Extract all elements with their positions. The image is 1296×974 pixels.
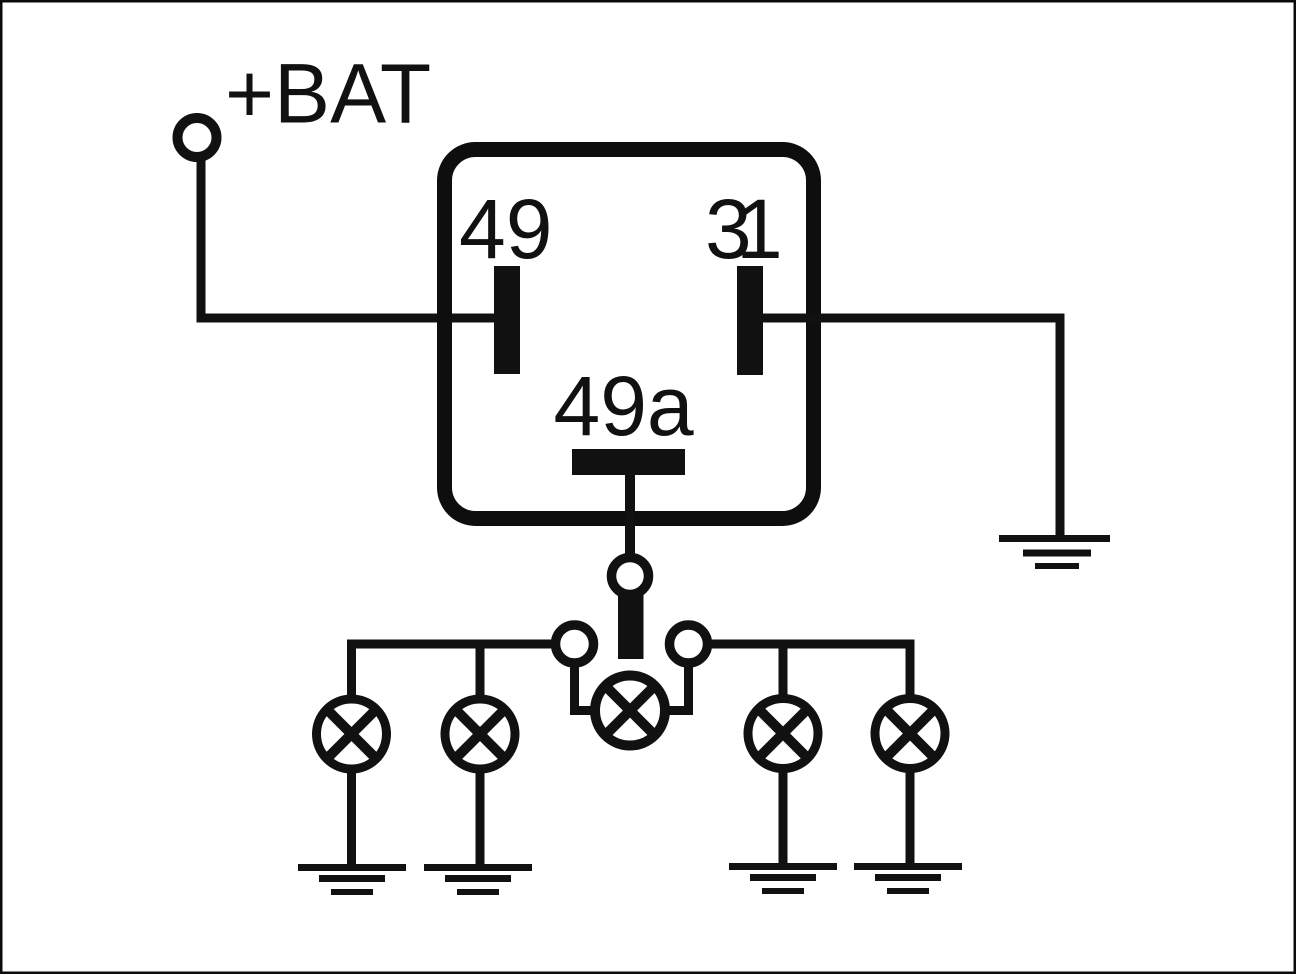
svg-text:+BAT: +BAT [225, 47, 431, 141]
lamp L5 center [595, 676, 665, 746]
contact node left [556, 625, 594, 663]
svg-text:49: 49 [459, 182, 552, 276]
ground G4 [854, 867, 962, 892]
wire lamp L2 drop [476, 644, 485, 700]
lamp L4 [875, 699, 945, 769]
wire lamp L1 to ground G1 [347, 769, 356, 867]
contact node right [670, 625, 708, 663]
ground G5 right [999, 539, 1110, 567]
wire pin 49a to switch contact [625, 473, 635, 556]
ground G2 [424, 868, 532, 893]
wire right bus to lamps L3 L4 [712, 644, 910, 698]
pin 31 [737, 266, 763, 375]
pin 49a [572, 449, 685, 475]
wire +BAT to pin 49 [201, 158, 502, 318]
lamp L1 [317, 699, 387, 769]
switch pivot contact [612, 558, 649, 595]
pin 49 [494, 266, 520, 374]
wire right contact to lamp L5 [666, 662, 689, 711]
ground G1 [298, 868, 406, 893]
wire left contact to lamp L5 [575, 662, 595, 711]
svg-text:31: 31 [705, 182, 783, 276]
svg-text:49a: 49a [554, 359, 694, 453]
relay K1 body [445, 150, 814, 519]
wire pin 31 to ground G5 [760, 318, 1060, 538]
wire lamp L2 to ground G2 [476, 769, 485, 867]
node +BAT terminal [178, 118, 217, 157]
ground G3 [729, 867, 837, 892]
wire lamp L3 drop [779, 644, 788, 698]
lamp L3 [748, 699, 818, 769]
wire lamp L4 to ground G4 [906, 768, 915, 866]
lamp L2 [445, 699, 515, 769]
switch arm [618, 594, 644, 659]
wire left bus to lamps L1 L2 [352, 644, 552, 700]
wire lamp L3 to ground G3 [779, 768, 788, 866]
